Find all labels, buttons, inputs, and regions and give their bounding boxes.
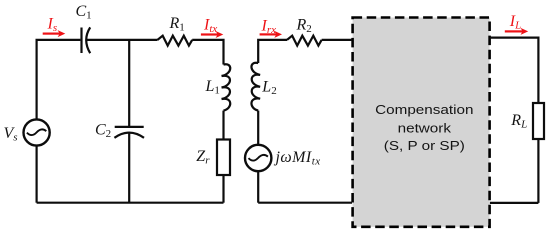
svg-text:R1: R1 [169,15,185,34]
svg-text:Vs: Vs [4,125,18,144]
svg-text:C2: C2 [95,121,111,140]
svg-text:(S, P or SP): (S, P or SP) [384,138,465,152]
svg-text:L1: L1 [205,78,220,97]
svg-text:L2: L2 [261,79,276,98]
svg-text:network: network [398,121,452,135]
svg-text:Compensation: Compensation [375,102,473,116]
svg-text:R2: R2 [296,16,312,35]
svg-text:Itx: Itx [203,16,217,35]
svg-text:Irx: Irx [261,17,277,36]
svg-text:Is: Is [47,16,58,35]
svg-text:jωMItx: jωMItx [274,149,321,168]
svg-text:C1: C1 [76,3,92,22]
svg-text:Zr: Zr [196,148,210,167]
svg-text:RL: RL [510,112,527,131]
svg-text:IL: IL [509,13,521,32]
